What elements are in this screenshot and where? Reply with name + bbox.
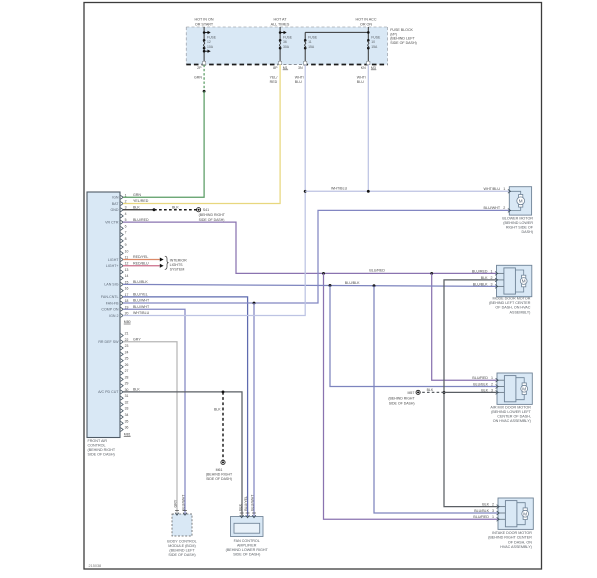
ground M57 [416,390,420,394]
svg-text:36: 36 [125,426,129,430]
svg-text:SIDE OF DASH): SIDE OF DASH) [168,553,195,557]
pin 36 [121,428,124,432]
svg-text:36: 36 [283,40,287,44]
svg-text:BLU: BLU [295,80,302,84]
svg-text:1: 1 [492,515,494,519]
page frame [84,3,542,570]
svg-text:OF DASH, ON HVAC: OF DASH, ON HVAC [495,306,530,310]
svg-text:KN: KN [361,66,366,70]
pin 9 [121,245,124,249]
svg-text:BLU/BLK: BLU/BLK [133,280,148,284]
pin 32 [121,403,124,407]
svg-text:BLU/RED: BLU/RED [369,268,385,272]
pin 14 [121,276,124,280]
svg-text:2: 2 [503,206,505,210]
pin 19 [121,307,124,311]
mode door motor [497,265,532,296]
svg-text:IGN: IGN [112,196,119,200]
svg-text:30A: 30A [283,45,290,49]
wire BLU/BLK branch to air mix door pin2 [330,285,497,386]
svg-text:GND: GND [111,208,119,212]
pin 34 [121,415,124,419]
junction [322,272,325,275]
svg-text:4: 4 [125,212,127,216]
svg-text:(BEHIND LOWER: (BEHIND LOWER [503,221,533,225]
svg-text:23: 23 [125,344,129,348]
svg-text:(BEHIND RIGHT: (BEHIND RIGHT [388,397,415,401]
svg-text:BLU/BLK: BLU/BLK [473,282,488,286]
svg-text:AMPLIFIER: AMPLIFIER [237,544,257,548]
svg-text:8: 8 [125,237,127,241]
svg-text:(BEHIND LOWER RIGHT: (BEHIND LOWER RIGHT [226,548,269,552]
svg-text:FUSE: FUSE [371,35,381,39]
pin 5 [121,220,124,224]
junction [430,272,433,275]
svg-text:SIDE OF DASH): SIDE OF DASH) [199,218,225,222]
pin 18 [121,301,124,305]
svg-text:BLU/WHT: BLU/WHT [133,305,150,309]
svg-text:MODE DOOR MOTOR: MODE DOOR MOTOR [493,297,531,301]
pin 29 [121,384,124,388]
svg-text:BLU/RED: BLU/RED [473,515,489,519]
svg-text:WHT/: WHT/ [295,76,304,80]
svg-text:IGN 2: IGN 2 [109,314,118,318]
svg-text:BLOWER MOTOR: BLOWER MOTOR [502,216,533,220]
svg-text:CENTER OF DASH,: CENTER OF DASH, [497,415,531,419]
svg-text:2: 2 [491,382,493,386]
svg-text:7: 7 [125,231,127,235]
pin 3 [121,208,124,212]
svg-text:GRY: GRY [133,337,141,341]
svg-text:FUSE: FUSE [283,35,293,39]
svg-text:BLK: BLK [481,276,488,280]
wire BLK dashed to ground M57 [420,391,445,393]
pin 4 [121,214,124,218]
junction [304,190,307,193]
svg-text:26: 26 [125,363,129,367]
svg-text:(BEHIND LEFT: (BEHIND LEFT [169,549,195,553]
svg-text:11: 11 [308,40,312,44]
svg-text:28: 28 [125,375,129,379]
svg-text:INTERIOR: INTERIOR [170,258,188,262]
svg-text:OF DASH, ON: OF DASH, ON [508,540,532,544]
svg-text:HOT IN ACC: HOT IN ACC [355,18,376,22]
pin 8 [121,239,124,243]
pin 10 [121,251,124,255]
pin 12 [121,264,124,268]
pin 22 [121,340,124,344]
junction [373,284,376,287]
svg-text:M81: M81 [124,432,131,436]
wire BLU/RED branch to intake door [324,273,499,519]
svg-text:16: 16 [125,287,129,291]
svg-text:34: 34 [125,413,129,417]
svg-text:FUSE: FUSE [308,35,318,39]
svg-text:(BEHIND RIGHT: (BEHIND RIGHT [199,213,226,217]
svg-text:ASSEMBLY): ASSEMBLY) [510,310,531,314]
svg-text:MODULE (BCM): MODULE (BCM) [168,544,195,548]
svg-text:ON HVAC ASSEMBLY): ON HVAC ASSEMBLY) [493,419,531,423]
fuse 10 15A [367,27,369,40]
svg-text:21: 21 [125,332,129,336]
wire BLK drop to ground M61 [222,392,224,460]
svg-text:GRN: GRN [133,193,141,197]
pin 6 [121,227,124,231]
wire BLU/RED branch to air mix door [432,273,497,380]
intake door motor [498,498,533,529]
pin 21 [121,334,124,338]
svg-text:(BEHIND RIGHT CENTER: (BEHIND RIGHT CENTER [488,536,532,540]
svg-text:HOT IN ON: HOT IN ON [195,18,214,22]
svg-text:M: M [519,198,523,203]
pin 11 [121,258,124,262]
svg-text:3: 3 [492,509,494,513]
svg-text:SIDE OF DASH): SIDE OF DASH) [206,477,232,481]
svg-text:BLU/RED: BLU/RED [472,376,488,380]
interior lights system brace and text [165,256,169,269]
svg-text:BLK: BLK [133,388,140,392]
front air control module [87,192,120,438]
pin 35 [121,421,124,425]
svg-text:SIDE OF DASH): SIDE OF DASH) [389,401,415,405]
body control module BCM [172,514,192,536]
pin 30 [121,390,124,394]
svg-text:15A: 15A [371,45,378,49]
svg-text:M: M [522,386,526,391]
svg-text:CONTROL: CONTROL [88,443,106,447]
svg-text:FAN-CNTL: FAN-CNTL [101,295,119,299]
svg-text:27: 27 [125,369,129,373]
svg-text:BLU/RED: BLU/RED [133,218,149,222]
svg-text:BLU/YEL: BLU/YEL [244,496,248,511]
pin 20 [121,314,124,318]
junction [329,284,332,287]
svg-text:M: M [523,511,527,516]
svg-text:HOT AT: HOT AT [274,18,288,22]
svg-text:FAN CONTROL: FAN CONTROL [234,539,260,543]
svg-text:35: 35 [125,419,129,423]
junction [222,390,225,393]
fuse 36 30A [279,27,281,40]
svg-text:S41: S41 [203,208,209,212]
wire BLU/BLK branch to intake door pin3 [374,286,498,513]
svg-text:BLK: BLK [481,388,488,392]
junction [367,190,370,193]
svg-text:BODY CONTROL: BODY CONTROL [167,540,196,544]
svg-text:9: 9 [125,243,127,247]
ground M61 [221,460,225,464]
pin 7 [121,233,124,237]
pin 28 [121,377,124,381]
svg-text:25: 25 [125,357,129,361]
svg-text:SIDE OF DASH): SIDE OF DASH) [88,452,115,456]
wire WHT/BLU horizontal feed to blower [305,190,509,192]
svg-text:12: 12 [207,40,211,44]
svg-text:1: 1 [503,187,505,191]
svg-text:10A: 10A [207,45,214,49]
pin 31 [121,396,124,400]
svg-text:15A: 15A [308,45,315,49]
svg-text:215038: 215038 [89,564,102,568]
svg-text:OR ON: OR ON [360,22,372,26]
svg-text:BLU/WHT: BLU/WHT [133,299,150,303]
svg-text:BLU: BLU [357,80,364,84]
svg-text:BLK: BLK [214,408,221,412]
svg-text:WHT/BLU: WHT/BLU [331,187,348,191]
svg-text:YEL/: YEL/ [270,76,278,80]
fuse 12 10A [203,27,205,40]
svg-text:BLK: BLK [172,205,179,209]
svg-text:SIDE OF DASH): SIDE OF DASH) [233,553,260,557]
air mix door motor [497,373,532,404]
svg-text:BLU/WHT: BLU/WHT [250,494,254,511]
fuse block (I/P) [186,27,387,65]
svg-text:33: 33 [125,407,129,411]
svg-text:M57: M57 [407,391,414,395]
svg-text:OR START: OR START [195,22,214,26]
svg-text:FUSE: FUSE [207,35,217,39]
blower motor [509,187,531,215]
pin 16 [121,289,124,293]
pin 33 [121,409,124,413]
svg-text:GRY: GRY [173,499,177,507]
svg-text:A/C PD CUT: A/C PD CUT [98,390,119,394]
svg-text:2P: 2P [197,66,202,70]
svg-text:WHT/BLU: WHT/BLU [133,311,150,315]
svg-text:BLU/WHT: BLU/WHT [181,494,185,511]
svg-text:31: 31 [125,394,129,398]
svg-text:(BEHIND LEFT CENTER: (BEHIND LEFT CENTER [489,301,531,305]
pin 25 [121,359,124,363]
svg-text:BLK: BLK [427,388,434,392]
svg-text:SIDE OF DASH): SIDE OF DASH) [390,41,417,45]
svg-text:3: 3 [491,388,493,392]
svg-text:BLU/BLK: BLU/BLK [474,509,489,513]
fan control amplifier [231,517,264,537]
svg-text:M61: M61 [216,468,223,472]
svg-text:LIGHT: LIGHT [108,258,119,262]
wire BLK pin3 to splice S41 [123,209,154,211]
svg-text:3: 3 [491,282,493,286]
svg-text:SYSTEM: SYSTEM [170,268,185,272]
svg-text:BLU/YEL: BLU/YEL [133,293,148,297]
wire BLU/WHT branch to fan control amplifier [253,303,255,516]
svg-text:6: 6 [125,224,127,228]
svg-text:BLU/RED: BLU/RED [472,269,488,273]
svg-text:1: 1 [491,269,493,273]
svg-text:BLU/BLK: BLU/BLK [345,281,360,285]
svg-text:YEL/RED: YEL/RED [133,199,149,203]
svg-text:INTAKE DOOR MOTOR: INTAKE DOOR MOTOR [492,531,532,535]
svg-text:M80: M80 [124,320,131,324]
svg-text:RED/BLU: RED/BLU [133,261,149,265]
svg-text:(BEHIND RIGHT: (BEHIND RIGHT [88,448,116,452]
pin 24 [121,352,124,356]
svg-text:RED: RED [270,80,278,84]
svg-text:(BEHIND LOWER LEFT: (BEHIND LOWER LEFT [491,410,531,414]
svg-text:8P: 8P [273,66,278,70]
svg-text:RED/YEL: RED/YEL [133,255,148,259]
svg-text:M1: M1 [283,66,288,70]
pin 17 [121,295,124,299]
svg-text:BLK: BLK [238,503,242,510]
svg-text:M: M [522,279,526,284]
svg-text:GRN: GRN [194,76,202,80]
svg-text:10: 10 [125,249,129,253]
svg-text:FRONT AIR: FRONT AIR [88,439,108,443]
svg-text:DASH): DASH) [522,230,533,234]
svg-text:(BEHIND RIGHT: (BEHIND RIGHT [206,473,233,477]
pin 15 [121,282,124,286]
svg-text:RR DEF SW: RR DEF SW [98,340,119,344]
pin 26 [121,365,124,369]
pin 2 [121,202,124,206]
svg-text:HVAC ASSEMBLY): HVAC ASSEMBLY) [500,545,532,549]
svg-text:24: 24 [125,350,129,354]
svg-text:2: 2 [492,503,494,507]
svg-text:FAN-FB: FAN-FB [106,301,119,305]
svg-text:LAN SIG: LAN SIG [104,283,118,287]
svg-text:32: 32 [125,400,129,404]
junction [443,391,446,394]
pin 27 [121,371,124,375]
svg-text:ALL TIMES: ALL TIMES [271,22,290,26]
acc bus wire [305,31,368,33]
svg-text:AIR MIX DOOR MOTOR: AIR MIX DOOR MOTOR [490,405,531,409]
svg-text:10: 10 [371,40,375,44]
fuse 11 15A [304,32,306,40]
svg-text:BLK: BLK [133,205,140,209]
wire BLK to air mix door pin3 [444,391,497,393]
svg-text:29: 29 [125,382,129,386]
svg-text:LIGHTS: LIGHTS [170,263,184,267]
pin 1 [121,195,124,199]
pin 23 [121,346,124,350]
svg-text:2: 2 [491,276,493,280]
svg-text:BLK: BLK [482,503,489,507]
pin 13 [121,270,124,274]
svg-text:VR CTR: VR CTR [105,220,119,224]
svg-text:13: 13 [125,268,129,272]
svg-text:WHT/BLU: WHT/BLU [484,187,501,191]
svg-text:14: 14 [125,274,129,278]
svg-text:WHT/: WHT/ [357,76,366,80]
junction [253,302,256,305]
svg-text:LIGHT+: LIGHT+ [106,264,119,268]
svg-text:BLU/BLK: BLU/BLK [473,382,488,386]
svg-text:1: 1 [491,376,493,380]
svg-text:RIGHT SIDE OF: RIGHT SIDE OF [506,225,534,229]
wire BLK mode door pin2 to ground net [444,280,498,507]
svg-text:M3: M3 [371,66,376,70]
svg-text:BAT: BAT [112,202,120,206]
svg-text:BLU/WHT: BLU/WHT [484,206,501,210]
svg-text:COMP ON: COMP ON [101,308,119,312]
svg-text:3N: 3N [298,66,303,70]
splice S41 [197,208,201,212]
